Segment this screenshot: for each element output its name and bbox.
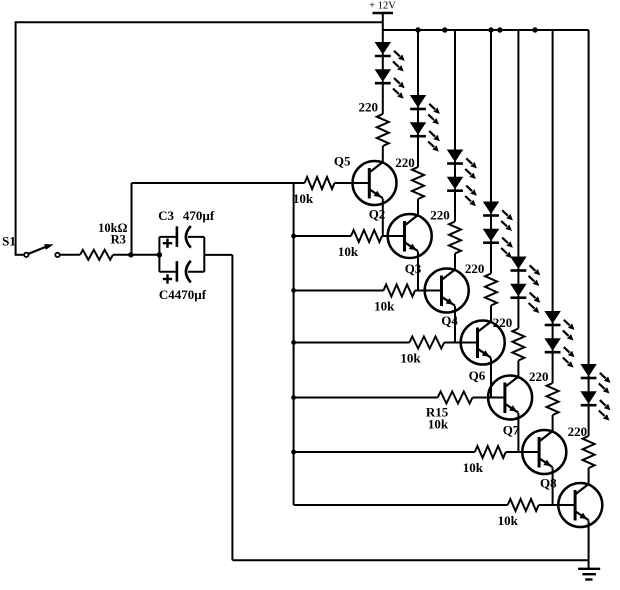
node: rail junction dots — [415, 27, 537, 32]
LED D4 — [410, 123, 426, 137]
+12V power symbol — [369, 1, 396, 31]
svg-text:Q2: Q2 — [369, 207, 386, 222]
wire: branch 1 from rail — [382, 30, 384, 45]
transistor Q4 — [441, 313, 504, 365]
LED light arrows branch 2 — [428, 104, 440, 152]
resistor 220 branch 5 — [493, 315, 525, 377]
wire: Q5 emitter to Q2 base line — [382, 199, 384, 237]
resistor 220 branch 2 — [395, 155, 424, 215]
resistor 10k base of Q8 — [294, 499, 577, 528]
LED D11 — [545, 312, 561, 326]
wire: bottom rail to ground — [232, 559, 588, 561]
wire: Q2 emitter to Q3 base line — [417, 252, 419, 291]
svg-text:220: 220 — [395, 155, 415, 170]
node: bus junction dots — [291, 234, 296, 455]
LED D5 — [447, 150, 463, 164]
switch S1 — [2, 233, 60, 257]
svg-text:220: 220 — [568, 424, 588, 439]
svg-text:10k: 10k — [400, 350, 421, 365]
wire: Q7 emitter to Q8 base line — [552, 468, 554, 506]
svg-text:10k: 10k — [498, 513, 519, 528]
svg-text:220: 220 — [529, 369, 549, 384]
svg-text:Q7: Q7 — [503, 423, 520, 438]
resistor 220 branch 7 — [568, 424, 595, 484]
svg-text:470µf: 470µf — [183, 208, 215, 223]
LED D2 — [375, 70, 391, 84]
svg-text:10k: 10k — [428, 416, 449, 431]
resistor 10k base of Q2 — [294, 230, 406, 259]
svg-text:C3: C3 — [158, 208, 174, 223]
resistor 220 branch 1 — [359, 100, 389, 162]
wire: branch 2 from rail — [417, 30, 419, 98]
resistor R15 10k base of Q6 — [294, 392, 507, 432]
LED D3 — [410, 96, 426, 110]
LED D1 — [375, 43, 391, 57]
transistor Q2 — [369, 207, 432, 259]
resistor R3 10k&#937; — [61, 221, 132, 260]
LED light arrows branch 1 — [393, 51, 405, 99]
LED D9 — [511, 257, 527, 271]
LED D10 — [511, 284, 527, 298]
wire: Q4 emitter to Q6 base line — [490, 358, 492, 398]
svg-text:C4470µf: C4470µf — [159, 287, 207, 302]
resistor 10k base of Q3 — [294, 285, 443, 314]
transistor Q7 — [503, 423, 567, 475]
resistor 220 branch 3 — [430, 208, 461, 270]
svg-text:220: 220 — [493, 315, 513, 330]
node: R3 / C3 / Q5-base junction — [128, 252, 133, 257]
wire: base bus vertical — [293, 183, 295, 505]
LED D8 — [483, 229, 499, 243]
svg-text:220: 220 — [465, 261, 485, 276]
wire: left vertical down to switch S1 — [15, 21, 17, 255]
LED D13 — [581, 365, 597, 379]
wire: branch 4 from rail — [490, 30, 492, 204]
resistor 220 branch 6 — [529, 369, 559, 431]
LED light arrows branch 4 — [501, 210, 513, 258]
wire: Q6 emitter to Q7 base line — [517, 413, 519, 452]
transistor Q3 — [405, 261, 469, 313]
transistor Q8 — [540, 476, 602, 528]
transistor Q6 — [469, 368, 533, 420]
svg-text:R3: R3 — [111, 233, 126, 247]
svg-text:10k: 10k — [374, 298, 395, 313]
LED D12 — [545, 339, 561, 353]
LED light arrows branch 3 — [465, 158, 477, 206]
svg-text:S1: S1 — [2, 233, 16, 248]
LED D7 — [483, 202, 499, 216]
capacitor C3 470uF — [158, 208, 215, 272]
LED light arrows branch 7 — [599, 373, 611, 421]
svg-text:Q6: Q6 — [469, 368, 486, 383]
LED D6 — [447, 177, 463, 191]
resistor 10k base of Q7 — [294, 446, 541, 475]
svg-text:Q8: Q8 — [540, 476, 557, 491]
svg-text:Q3: Q3 — [405, 261, 422, 276]
wire: branch 6 from rail — [552, 30, 554, 314]
LED light arrows branch 5 — [529, 265, 541, 313]
LED D14 — [581, 392, 597, 406]
wire: capacitor output to bottom rail — [204, 254, 232, 256]
svg-text:220: 220 — [430, 208, 450, 223]
svg-text:Q4: Q4 — [441, 313, 458, 328]
wire: node to capacitor bank — [131, 254, 160, 256]
svg-text:10k: 10k — [338, 244, 359, 259]
svg-text:10k: 10k — [463, 460, 484, 475]
svg-text:10k: 10k — [293, 191, 314, 206]
capacitor C4 470uF — [159, 237, 207, 302]
svg-text:Q5: Q5 — [334, 154, 351, 169]
wire: +12V rail — [383, 29, 589, 31]
resistor 10k base of Q5 — [132, 177, 371, 206]
wire: Q8 emitter to ground rail — [588, 521, 590, 561]
svg-text:+ 12V: + 12V — [369, 1, 396, 12]
wire: branch 5 from rail — [517, 30, 519, 259]
LED light arrows branch 6 — [563, 320, 575, 368]
wire: top horizontal from +12V to left side — [16, 21, 383, 23]
wire: branch 7 from rail — [588, 30, 590, 367]
transistor Q5 — [334, 154, 397, 206]
resistor 10k base of Q4 — [294, 337, 479, 366]
wire: Q3 emitter to Q4 base line — [454, 306, 456, 343]
ground — [578, 560, 600, 579]
wire: branch 3 from rail — [454, 30, 456, 152]
resistor 220 branch 4 — [465, 261, 497, 322]
svg-text:220: 220 — [359, 100, 379, 115]
wire: node up to Q5 base line — [131, 183, 133, 255]
